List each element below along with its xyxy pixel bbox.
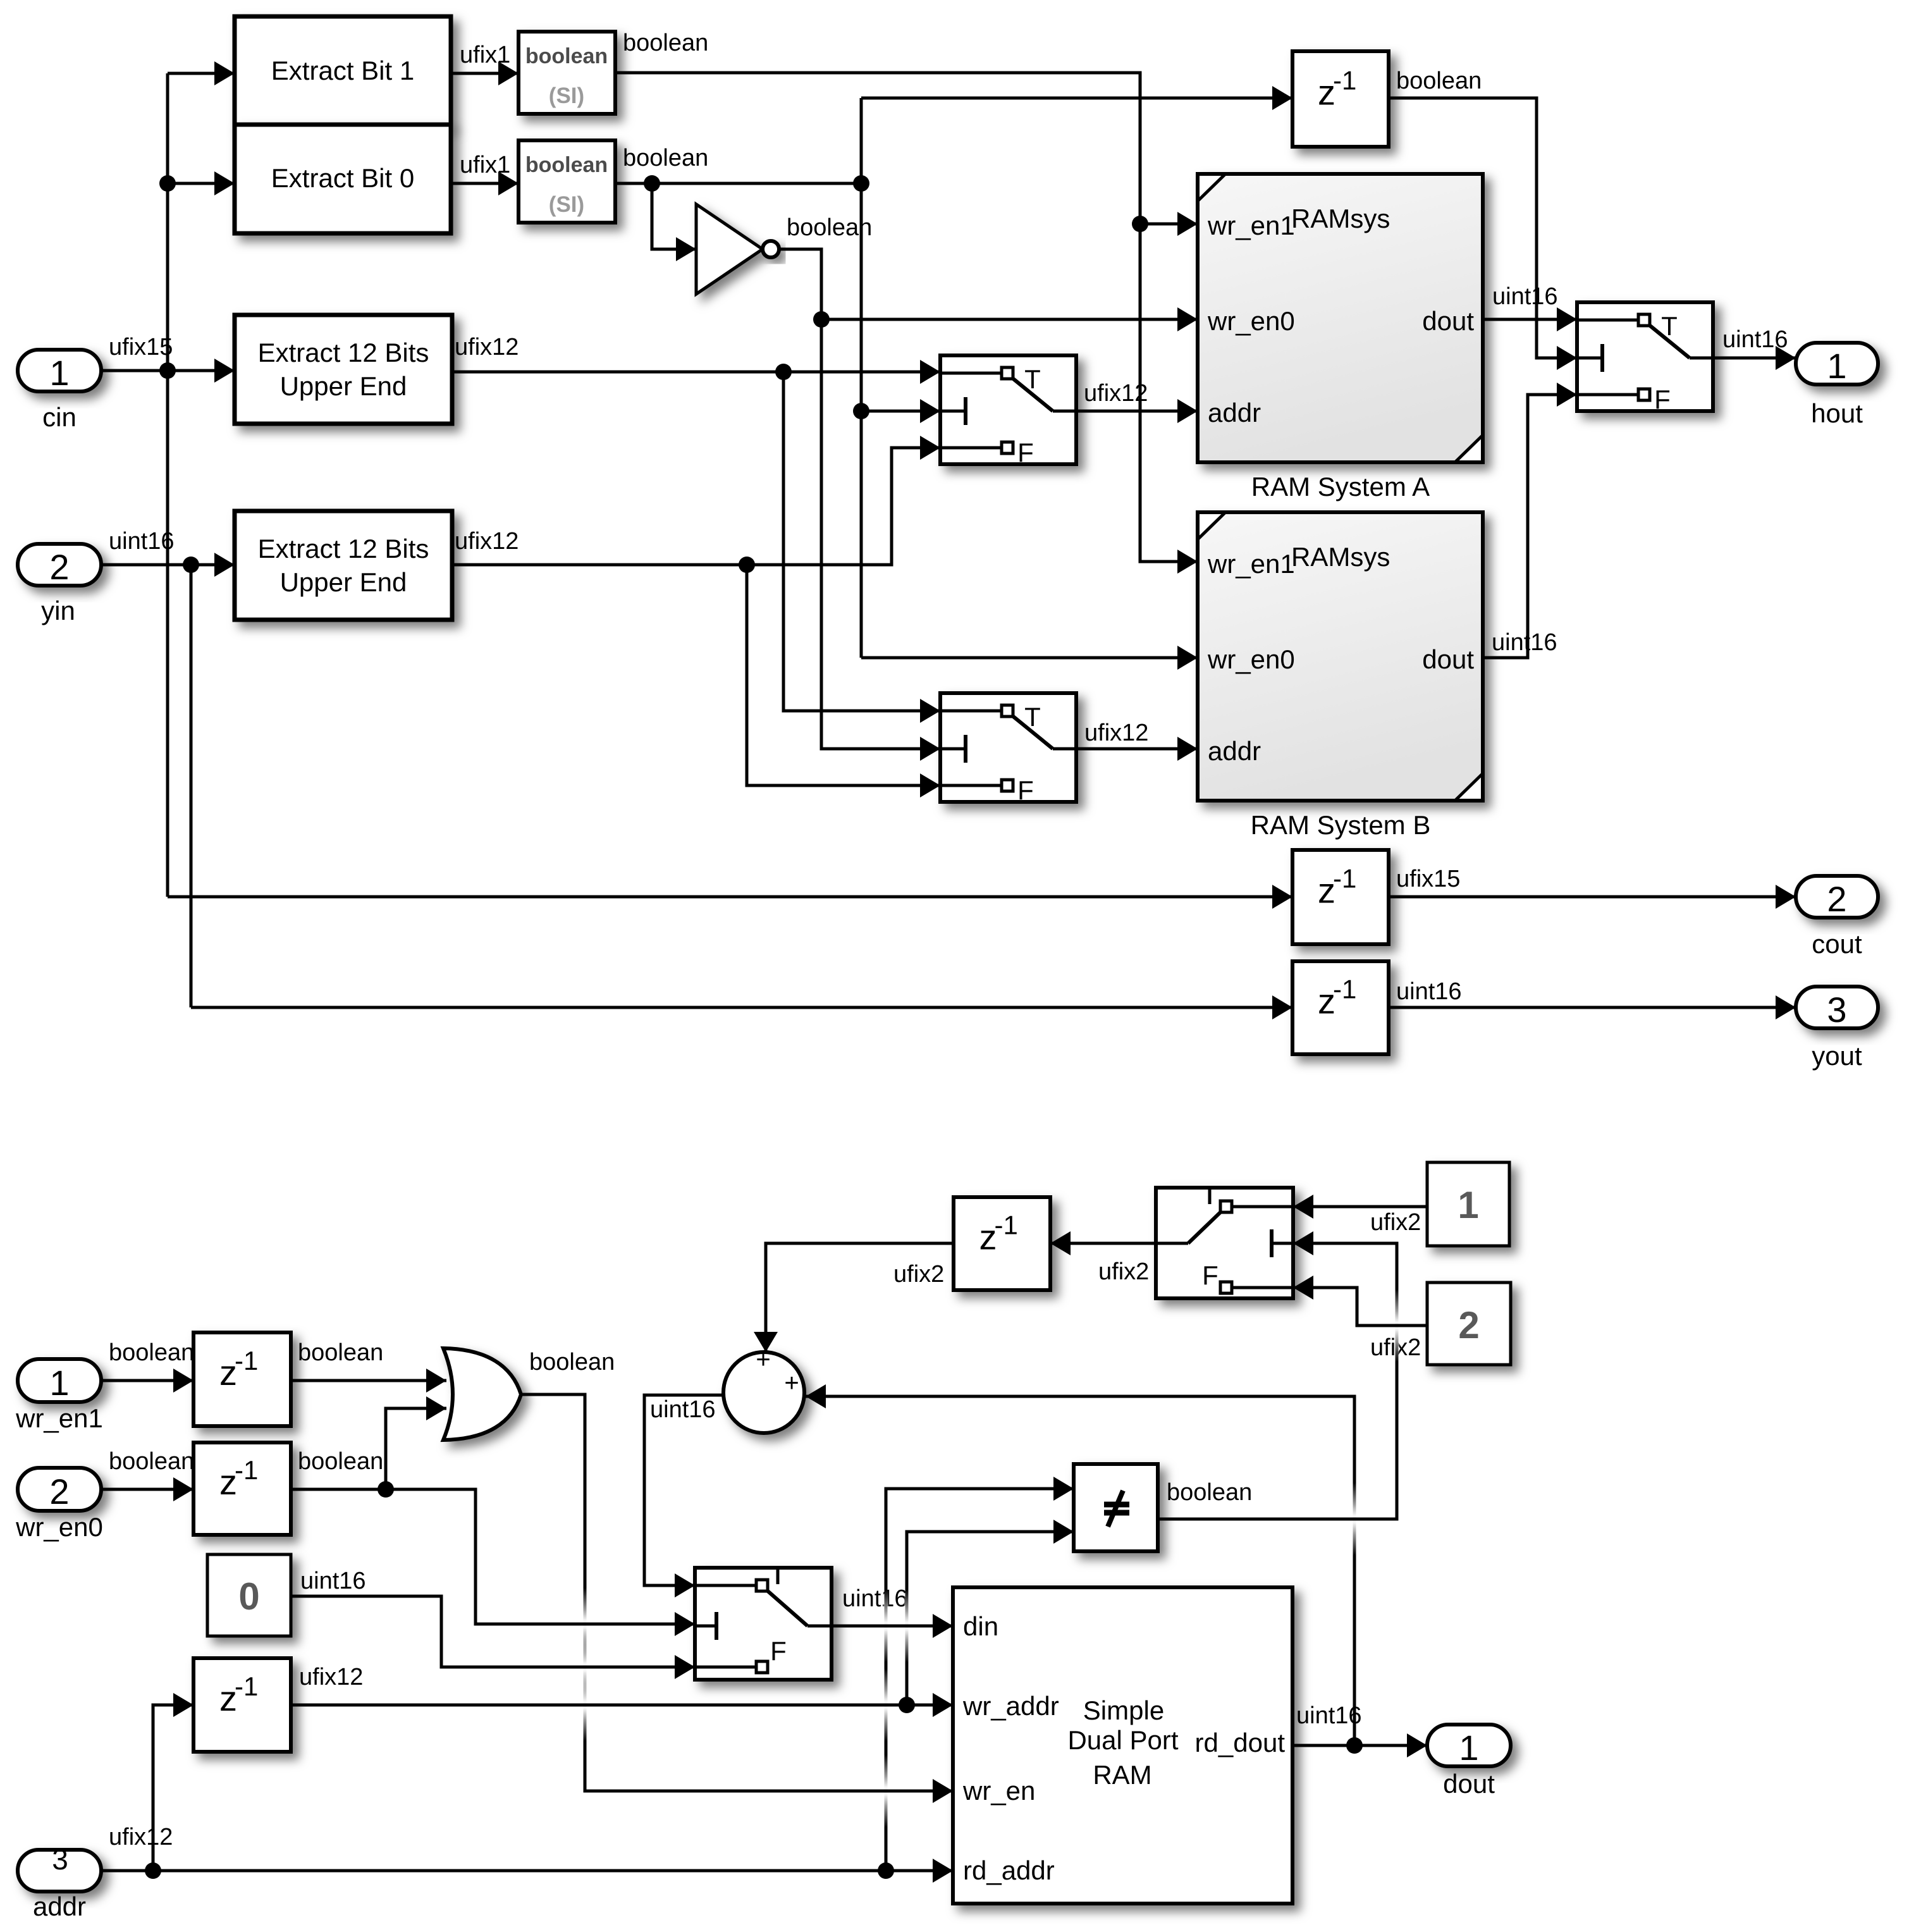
- unit delay Z-1 (wr_en1): [193, 1332, 291, 1426]
- svg-text:Upper End: Upper End: [280, 371, 407, 401]
- signal label ufix15 (cout): [1396, 866, 1460, 892]
- constant block 0: [207, 1554, 291, 1636]
- signal label boolean (Z2 out): [298, 1448, 383, 1475]
- wire cout delay output to cout: [1389, 885, 1796, 909]
- wire branch up to neq first input: [886, 1477, 1074, 1871]
- svg-text:F: F: [1017, 775, 1034, 805]
- svg-text:3: 3: [52, 1843, 68, 1876]
- wire NOT output to RAM System A wr_en0 and switch3 control: [779, 249, 940, 761]
- signal label uint16 (yin): [109, 528, 175, 555]
- signal label ufix15: [109, 334, 173, 360]
- block Simple Dual Port RAM: [953, 1587, 1292, 1904]
- svg-text:addr: addr: [1208, 736, 1261, 766]
- svg-text:1: 1: [1827, 346, 1846, 386]
- wire neq output up to switch5 control: [1158, 1231, 1397, 1519]
- svg-text:+: +: [784, 1369, 799, 1397]
- svg-text:boolean: boolean: [109, 1448, 194, 1475]
- svg-text:wr_en: wr_en: [962, 1776, 1035, 1806]
- signal label uint16 (din): [842, 1585, 908, 1612]
- svg-text:uint16: uint16: [1296, 1702, 1362, 1729]
- svg-text:RAMsys: RAMsys: [1291, 542, 1390, 572]
- svg-text:ufix2: ufix2: [1370, 1209, 1421, 1236]
- wire sum output to switch4 T (uint16): [644, 1395, 723, 1597]
- svg-text:ufix12: ufix12: [1084, 720, 1148, 746]
- svg-text:uint16: uint16: [1722, 326, 1788, 353]
- wire switch2 output to hout (uint16): [1713, 346, 1796, 370]
- svg-text:1: 1: [1459, 1728, 1478, 1768]
- signal label uint16 (const 0): [300, 1568, 366, 1594]
- svg-text:Extract 12 Bits: Extract 12 Bits: [258, 338, 429, 367]
- svg-text:ufix2: ufix2: [1098, 1258, 1149, 1285]
- wire Extract12(yin) output to switch1 F (ufix12): [452, 436, 940, 573]
- wire Z-1 boolean output to switch2 control: [1389, 98, 1577, 370]
- wire bit0 vertical x=1362 (up to unit delay, down to switch1 control and RAM B wr_en0): [853, 98, 869, 658]
- wire switch4 output to Simple RAM din (uint16): [832, 1614, 953, 1638]
- unit delay Z-1 (cout): [1292, 850, 1389, 944]
- svg-text:wr_en0: wr_en0: [1207, 306, 1295, 336]
- svg-text:-1: -1: [235, 1671, 258, 1701]
- svg-text:boolean: boolean: [298, 1448, 383, 1475]
- svg-text:Extract Bit 0: Extract Bit 0: [271, 163, 414, 193]
- svg-text:Extract Bit 1: Extract Bit 1: [271, 56, 414, 85]
- svg-text:yout: yout: [1812, 1041, 1862, 1071]
- signal label ufix2 (const2): [1370, 1334, 1421, 1361]
- signal label boolean (wr_en1 in): [109, 1339, 194, 1366]
- unit delay Z-1 (addr): [193, 1658, 291, 1752]
- wire Extract12(cin) output to switch1 T (ufix12): [452, 360, 940, 384]
- wire bit0 to unit delay Z-1 (top): [861, 86, 1292, 110]
- svg-text:uint16: uint16: [1492, 283, 1558, 310]
- wire Z1 output to OR gate: [291, 1369, 446, 1393]
- svg-text:Dual Port: Dual Port: [1067, 1725, 1178, 1755]
- svg-text:din: din: [963, 1611, 998, 1641]
- input port 2 yin: [18, 544, 101, 625]
- svg-text:1: 1: [49, 353, 69, 393]
- block data type convert boolean(SI) 2: [519, 140, 615, 223]
- svg-text:ufix12: ufix12: [109, 1824, 173, 1850]
- svg-text:RAMsys: RAMsys: [1291, 204, 1390, 233]
- block Extract Bit 1: [235, 16, 451, 125]
- signal label ufix12 (switch1 out): [1084, 380, 1148, 407]
- svg-text:hout: hout: [1811, 398, 1863, 428]
- svg-text:wr_en1: wr_en1: [1207, 211, 1295, 240]
- wire boolean(SI)1 output to RAM wr_en1 nets: [615, 73, 1198, 574]
- svg-text:ufix2: ufix2: [893, 1261, 944, 1288]
- svg-text:2: 2: [49, 1472, 69, 1511]
- svg-text:ufix15: ufix15: [109, 334, 173, 360]
- svg-text:ufix15: ufix15: [1396, 866, 1460, 892]
- wire cin vertical branch x=265 (up to Extract Bit blocks, down to cout delay): [159, 73, 176, 897]
- wire Z(ufix2) output down to sum top input: [754, 1243, 954, 1352]
- wire yin vertical branch x=302 down to yout delay: [190, 565, 193, 1007]
- wire constant2 to switch5 F (ufix2): [1293, 1276, 1427, 1326]
- switch block 3 (RAM B addr select): [940, 693, 1076, 805]
- svg-text:boolean: boolean: [787, 214, 872, 241]
- svg-text:+: +: [756, 1346, 770, 1374]
- wire branch to RAM System A wr_en1: [1140, 212, 1198, 236]
- wire constant0 to switch4 F: [291, 1596, 695, 1679]
- svg-text:-1: -1: [235, 1455, 258, 1485]
- svg-text:-1: -1: [1333, 975, 1356, 1004]
- svg-text:F: F: [1017, 438, 1034, 467]
- block Extract Bit 0: [235, 125, 451, 233]
- signal label ufix2 (const1): [1370, 1209, 1421, 1236]
- constant block 1: [1427, 1162, 1509, 1246]
- output port 2 cout: [1796, 876, 1878, 959]
- wire cin delayed to cout delay (long horizontal): [168, 885, 1292, 909]
- wire branch to RAM System A wr_en0: [821, 307, 1198, 331]
- wire branch down to switch3 F: [747, 565, 940, 797]
- wire switch5 output to Z(ufix2) input: [1050, 1231, 1156, 1255]
- svg-text:boolean: boolean: [525, 44, 608, 68]
- wire constant1 to switch5 T (ufix2): [1293, 1195, 1427, 1219]
- svg-text:rd_addr: rd_addr: [963, 1855, 1055, 1885]
- input port 2 wr_en0 (bottom): [15, 1468, 103, 1542]
- wire Extract Bit 1 to boolean(SI)1 (ufix1): [451, 61, 519, 85]
- svg-text:Upper End: Upper End: [280, 567, 407, 597]
- svg-text:boolean: boolean: [1167, 1479, 1252, 1506]
- svg-text:wr_en0: wr_en0: [15, 1512, 103, 1542]
- wire rd_dout to dout and feedback to sum (uint16): [1292, 1733, 1427, 1757]
- svg-text:cout: cout: [1812, 929, 1862, 959]
- wire crossing gaps (line hop rendering): [534, 1289, 1427, 1828]
- svg-text:ufix12: ufix12: [299, 1664, 363, 1690]
- svg-text:rd_dout: rd_dout: [1195, 1728, 1286, 1757]
- signal label ufix2 (Z in): [1098, 1258, 1149, 1285]
- signal label ufix12 (addr): [109, 1824, 173, 1850]
- svg-text:addr: addr: [33, 1892, 86, 1921]
- signal label boolean (neq out): [1167, 1479, 1252, 1506]
- unit delay Z-1 (wr_en0): [193, 1443, 291, 1535]
- svg-text:dout: dout: [1443, 1769, 1495, 1799]
- svg-text:boolean: boolean: [623, 30, 708, 56]
- svg-text:2: 2: [1458, 1304, 1479, 1346]
- signal label uint16 (hout): [1722, 326, 1788, 353]
- unit delay Z-1 (ufix2 bank select): [954, 1197, 1050, 1290]
- wire branch down to switch3 T: [783, 372, 940, 723]
- wire switch1 output to RAM System A addr (ufix12): [1076, 399, 1198, 423]
- svg-text:ufix12: ufix12: [455, 528, 519, 555]
- block data type convert boolean(SI) 1: [519, 32, 615, 114]
- signal label ufix12 (Z3 out): [299, 1664, 363, 1690]
- svg-text:0: 0: [238, 1575, 259, 1618]
- signal label boolean (NOT output): [787, 214, 872, 241]
- svg-text:dout: dout: [1422, 644, 1474, 674]
- wire bit0 to RAM System B wr_en0: [861, 646, 1198, 670]
- svg-text:uint16: uint16: [1396, 978, 1462, 1005]
- svg-text:wr_en0: wr_en0: [1207, 644, 1295, 674]
- logical OR gate: [443, 1348, 521, 1440]
- svg-text:wr_en1: wr_en1: [1207, 549, 1295, 579]
- svg-text:uint16: uint16: [300, 1568, 366, 1594]
- svg-text:F: F: [1654, 385, 1671, 414]
- wire OR output to Simple RAM wr_en: [521, 1394, 953, 1803]
- svg-text:cin: cin: [42, 402, 77, 432]
- svg-text:RAM System A: RAM System A: [1251, 472, 1430, 501]
- wire yin delayed to yout delay (long horizontal): [191, 995, 1292, 1019]
- svg-text:uint16: uint16: [650, 1396, 716, 1423]
- wire branch to Extract Bit 1: [168, 61, 235, 85]
- wire yout delay output to yout: [1389, 995, 1796, 1019]
- subsystem RAM System A: [1198, 174, 1483, 501]
- wire switch3 output to RAM System B addr (ufix12): [1076, 737, 1198, 761]
- svg-text:wr_en1: wr_en1: [15, 1403, 103, 1433]
- logical NOT gate: [696, 204, 779, 294]
- block Extract 12 Bits Upper End (cin): [235, 315, 452, 424]
- wire boolean(SI)2 output (bit0 boolean net): [615, 175, 869, 192]
- output port 1 dout (bottom): [1427, 1725, 1511, 1799]
- svg-text:RAM: RAM: [1093, 1760, 1151, 1790]
- wire Z2 output to switch4 control and OR gate: [291, 1481, 695, 1636]
- output port 3 yout: [1796, 987, 1878, 1071]
- svg-text:ufix1: ufix1: [460, 42, 510, 68]
- wire branch down to NOT gate: [652, 183, 696, 261]
- wire branch up to OR gate second input: [386, 1396, 446, 1489]
- svg-text:F: F: [770, 1636, 787, 1666]
- neq relational operator block: [1074, 1464, 1158, 1551]
- svg-text:addr: addr: [1208, 398, 1261, 428]
- wire Extract Bit 0 to boolean(SI)2 (ufix1): [451, 171, 519, 195]
- svg-text:yin: yin: [41, 596, 75, 625]
- output port 1 hout: [1796, 343, 1878, 428]
- svg-text:-1: -1: [1333, 864, 1356, 894]
- block Extract 12 Bits Upper End (yin): [235, 511, 452, 620]
- svg-text:uint16: uint16: [842, 1585, 908, 1612]
- svg-text:uint16: uint16: [109, 528, 175, 555]
- svg-text:boolean: boolean: [1396, 68, 1482, 94]
- subsystem RAM System B: [1198, 512, 1483, 840]
- unit delay Z-1 (yout): [1292, 961, 1389, 1054]
- svg-text:dout: dout: [1422, 306, 1474, 336]
- svg-text:-1: -1: [1333, 66, 1356, 95]
- svg-text:ufix1: ufix1: [460, 152, 510, 178]
- wire bit0 to switch1 control: [861, 399, 940, 423]
- svg-text:wr_addr: wr_addr: [962, 1691, 1059, 1721]
- svg-text:3: 3: [1827, 990, 1846, 1030]
- signal label uint16 (RAM B dout): [1492, 629, 1557, 656]
- sum block (adder circle): [723, 1346, 804, 1433]
- svg-text:RAM System B: RAM System B: [1251, 810, 1431, 840]
- switch block 2 (hout select): [1577, 302, 1713, 414]
- input port 1 wr_en1 (bottom): [15, 1359, 103, 1433]
- svg-text:1: 1: [1458, 1184, 1478, 1226]
- svg-text:boolean: boolean: [529, 1349, 615, 1375]
- input port 3 addr (bottom): [18, 1843, 101, 1921]
- wire branch to Extract Bit 0: [168, 171, 235, 195]
- svg-text:(SI): (SI): [549, 192, 584, 217]
- signal label boolean (bit0 net): [623, 145, 708, 171]
- wire branch up to neq second input: [907, 1520, 1074, 1705]
- wire feedback up to sum right input: [806, 1384, 1354, 1745]
- switch block 1 (RAM A addr select): [940, 355, 1076, 467]
- wire wr_en0 to delay Z2: [101, 1477, 193, 1501]
- wire yin to Extract 12 Bits Upper End 2 (uint16): [101, 553, 235, 577]
- svg-text:-1: -1: [995, 1210, 1018, 1240]
- svg-text:2: 2: [1827, 879, 1846, 919]
- wire RAM System B dout to switch2 F (uint16): [1483, 383, 1577, 658]
- signal label ufix1 (bit0): [460, 152, 510, 178]
- signal label boolean (bit1 net): [623, 30, 708, 56]
- signal label ufix1 (bit1): [460, 42, 510, 68]
- svg-text:ufix12: ufix12: [455, 334, 519, 360]
- svg-text:boolean: boolean: [623, 145, 708, 171]
- svg-text:Simple: Simple: [1083, 1695, 1164, 1725]
- wire branch up to Z3 input: [153, 1693, 193, 1871]
- svg-text:F: F: [1202, 1260, 1218, 1290]
- svg-text:1: 1: [49, 1363, 69, 1403]
- signal label boolean (OR out): [529, 1349, 615, 1375]
- wire wr_en1 to delay Z1: [101, 1369, 193, 1393]
- svg-text:uint16: uint16: [1492, 629, 1557, 656]
- signal label ufix2 (Z out): [893, 1261, 944, 1288]
- svg-text:boolean: boolean: [525, 153, 608, 177]
- wire Z3 output to Simple RAM wr_addr (ufix12): [291, 1693, 953, 1717]
- svg-text:boolean: boolean: [298, 1339, 383, 1366]
- signal label boolean (Z1 out): [298, 1339, 383, 1366]
- input port 1 cin: [18, 350, 101, 432]
- unit delay Z-1 (boolean, top right): [1292, 51, 1389, 147]
- signal label uint16 (rd_dout): [1296, 1702, 1362, 1729]
- svg-text:Extract 12 Bits: Extract 12 Bits: [258, 534, 429, 563]
- wire cin to Extract 12 Bits Upper End (ufix15 net): [101, 359, 235, 383]
- switch block 4 (din select): [695, 1568, 832, 1680]
- signal label uint16 (sum out): [650, 1396, 716, 1423]
- switch block 5 (mirrored, bank select): [1156, 1188, 1293, 1298]
- svg-text:(SI): (SI): [549, 83, 584, 108]
- signal label ufix12 (yin extract): [455, 528, 519, 555]
- svg-text:2: 2: [49, 547, 69, 587]
- signal label uint16 (yout): [1396, 978, 1462, 1005]
- svg-text:ufix12: ufix12: [1084, 380, 1148, 407]
- svg-text:boolean: boolean: [109, 1339, 194, 1366]
- wire RAM System A dout to switch2 T (uint16): [1483, 307, 1577, 331]
- signal label ufix12 (cin extract): [455, 334, 519, 360]
- wire addr to Simple RAM rd_addr (ufix12): [101, 1859, 953, 1883]
- svg-text:-1: -1: [235, 1346, 258, 1375]
- signal label boolean (delay out): [1396, 68, 1482, 94]
- constant block 2: [1427, 1283, 1511, 1365]
- signal label uint16 (RAM A dout): [1492, 283, 1558, 310]
- signal label boolean (wr_en0 in): [109, 1448, 194, 1475]
- signal label ufix12 (switch3 out): [1084, 720, 1148, 746]
